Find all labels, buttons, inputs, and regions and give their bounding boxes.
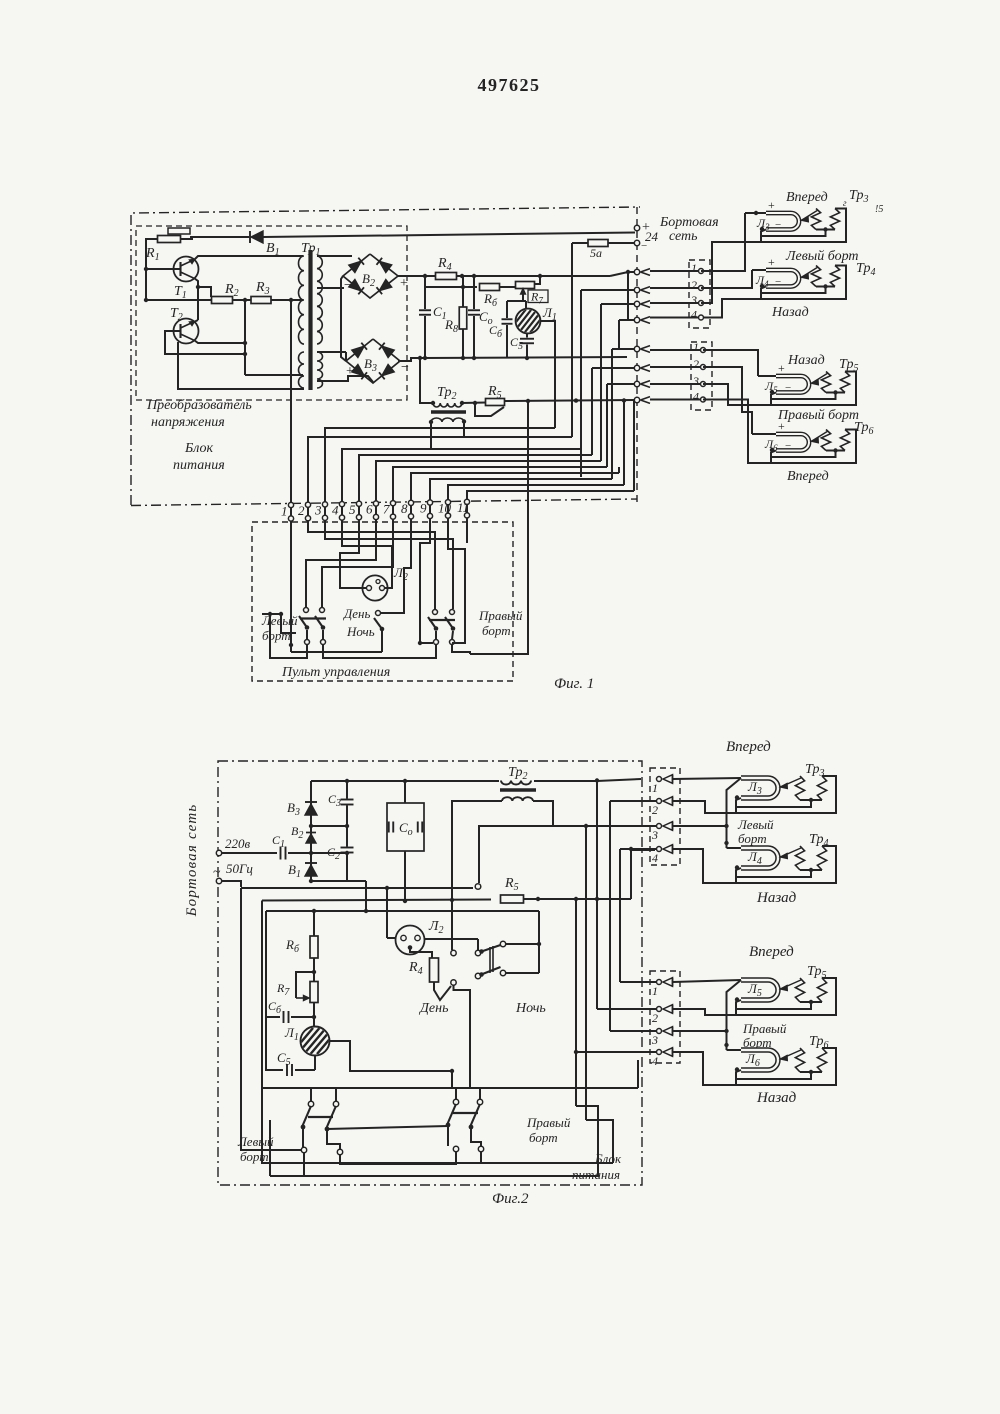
svg-text:Бортовая: Бортовая xyxy=(659,215,719,230)
svg-text:497625: 497625 xyxy=(478,75,541,95)
svg-text:С5: С5 xyxy=(510,335,523,352)
svg-text:3: 3 xyxy=(314,503,322,518)
capacitor C5 xyxy=(526,333,528,338)
svg-text:3: 3 xyxy=(651,1033,658,1047)
resistor R5 fig2 xyxy=(262,900,491,901)
wire pin2 to L3 return xyxy=(673,801,735,813)
svg-text:напряжения: напряжения xyxy=(151,415,225,430)
wire R1 right to top line xyxy=(181,237,193,239)
svg-text:Rб: Rб xyxy=(483,291,498,309)
terminal rows 1..11 fig1 xyxy=(288,502,293,507)
svg-text:Тр3: Тр3 xyxy=(805,762,824,779)
wire R1 left down to base line xyxy=(146,239,158,300)
switch left-board fig2 xyxy=(308,1101,313,1106)
wire Tp2 secondary left drop xyxy=(452,801,502,950)
transformer Tp1 right winding upper xyxy=(317,256,322,344)
svg-text:1: 1 xyxy=(652,781,658,795)
wire T1 base xyxy=(146,268,181,270)
svg-text:борт: борт xyxy=(262,628,291,643)
svg-text:Л1: Л1 xyxy=(284,1025,299,1043)
resistor R5 (fig1) xyxy=(462,402,486,405)
wire pin2-2 to L5 return xyxy=(673,1009,735,1015)
svg-text:Тр3: Тр3 xyxy=(849,188,868,205)
wire pin A4 return xyxy=(703,299,760,318)
resistor R6 fig2 xyxy=(312,909,316,913)
svg-text:50Гц: 50Гц xyxy=(226,861,253,876)
feeder L6 fig2 xyxy=(673,1030,727,1032)
capacitor C6 (vertical) xyxy=(506,301,508,318)
bridge rectifier B2 xyxy=(343,254,398,298)
wire pin4 to L4 return xyxy=(673,849,735,883)
svg-text:Левый: Левый xyxy=(737,817,774,832)
lamp L5 (Л5) fig1 with heater Tp5 xyxy=(776,376,809,393)
resistor R4 fig2 xyxy=(430,958,439,982)
svg-text:Левый: Левый xyxy=(237,1134,274,1149)
svg-text:В2: В2 xyxy=(362,271,375,289)
lamp L4 (Л4) fig1 with heater Tp4 xyxy=(766,270,799,287)
R7 wiper arrow xyxy=(522,292,524,301)
lamp L4 (Л4) fig2 with heater Tp4 xyxy=(741,848,778,868)
wire pin A2 to lamp L4 xyxy=(701,270,752,288)
svg-text:R1: R1 xyxy=(145,246,160,263)
wire base line y=300 xyxy=(146,299,303,301)
svg-text:+: + xyxy=(778,361,785,375)
resistor R6 xyxy=(480,284,500,291)
diode B1 fig2 xyxy=(305,865,317,876)
svg-text:Блок: Блок xyxy=(184,441,214,456)
lamp L5 (Л5) fig2 with heater Tp5 xyxy=(741,980,778,1000)
svg-text:R5: R5 xyxy=(504,876,519,893)
switch right-board (fig1) xyxy=(433,610,438,615)
svg-text:2: 2 xyxy=(652,803,658,817)
capacitor C0 fig2 (box) xyxy=(387,803,424,851)
wiper line xyxy=(507,300,526,302)
potentiometer R7 xyxy=(500,286,517,288)
svg-text:Правый: Правый xyxy=(478,608,523,623)
svg-text:В3: В3 xyxy=(287,800,300,818)
capacitor C0 xyxy=(472,356,476,360)
control panel dashed box (Пульт управления) xyxy=(252,522,513,681)
transformer Tp1 left winding lower xyxy=(299,352,305,388)
svg-text:R4: R4 xyxy=(408,960,423,977)
lamp L2 (Л2) fig2 xyxy=(396,926,425,955)
svg-text:Со: Со xyxy=(399,820,413,838)
capacitor C2 fig2 xyxy=(341,847,354,849)
svg-text:R7: R7 xyxy=(530,290,543,306)
wire top line to B1 and +24 xyxy=(190,236,249,238)
svg-text:4: 4 xyxy=(652,851,658,865)
svg-text:3: 3 xyxy=(692,374,699,388)
svg-text:Вперед: Вперед xyxy=(787,469,829,484)
svg-text:Правый: Правый xyxy=(526,1115,571,1130)
svg-text:Т2: Т2 xyxy=(170,306,183,323)
lamp L3 (Л3) fig1 with heater Tp3 xyxy=(766,213,799,230)
diode B1 xyxy=(251,231,263,243)
svg-text:С5: С5 xyxy=(277,1050,291,1068)
wire День circle up xyxy=(453,950,455,952)
svg-text:5: 5 xyxy=(349,502,356,517)
wire T2 emitter xyxy=(194,340,245,343)
switch right-board fig2 xyxy=(453,1099,458,1104)
svg-text:Л6: Л6 xyxy=(764,437,778,453)
svg-text:Назад: Назад xyxy=(771,305,809,320)
wire return line y=887 xyxy=(241,887,473,889)
svg-text:Правый: Правый xyxy=(742,1021,787,1036)
wire T2 collector from T1 xyxy=(194,320,198,322)
svg-text:−: − xyxy=(344,278,352,293)
svg-text:R7: R7 xyxy=(276,981,290,998)
svg-text:Назад: Назад xyxy=(756,890,797,906)
svg-text:2: 2 xyxy=(693,357,699,371)
svg-text:1: 1 xyxy=(652,984,658,998)
input terminals fig2 xyxy=(216,850,221,855)
wire T1 emitter down to T2 xyxy=(194,278,198,320)
svg-text:8: 8 xyxy=(401,501,408,516)
staircase wires to panel terminals xyxy=(308,437,572,503)
svg-text:Фиг. 1: Фиг. 1 xyxy=(554,676,594,692)
wire bottom rail y=358 xyxy=(422,357,627,358)
capacitor C6 fig2 xyxy=(266,1016,280,1018)
connector block 1 fig2 xyxy=(650,768,680,865)
svg-text:−: − xyxy=(775,276,781,288)
svg-text:борт: борт xyxy=(240,1149,269,1164)
svg-text:4: 4 xyxy=(332,502,339,517)
wire link between switch groups fig2 xyxy=(327,1126,448,1129)
lamp L6 (Л6) fig1 with heater Tp6 xyxy=(776,434,809,451)
svg-text:2: 2 xyxy=(298,503,305,518)
switch День (fig2) xyxy=(434,982,451,1000)
svg-text:10: 10 xyxy=(438,500,452,515)
wire 50Hz line xyxy=(222,881,242,887)
connector block 2 fig2 xyxy=(650,971,680,1063)
wire long vertical to terminal 1 xyxy=(290,300,292,505)
svg-text:Правый борт: Правый борт xyxy=(777,408,859,423)
wire x528 drop to control panel xyxy=(470,401,528,654)
wires edge to connector A xyxy=(650,270,699,272)
wire top rail fig2 xyxy=(311,780,499,782)
Fig1 inner dashed box (Преобразователь напряжения) xyxy=(136,226,407,400)
svg-text:С1: С1 xyxy=(272,833,285,850)
switch left-board (fig1) xyxy=(304,608,309,613)
svg-text:−: − xyxy=(641,240,647,252)
svg-text:Пульт управления: Пульт управления xyxy=(281,665,390,680)
diode B3 fig2 xyxy=(305,804,317,815)
svg-text:−: − xyxy=(785,382,791,394)
svg-text:Тр2: Тр2 xyxy=(437,385,456,402)
wire L2 bottom to R4 xyxy=(410,948,432,959)
wire pin A3 return xyxy=(701,242,760,303)
potentiometer R7 fig2 xyxy=(310,982,318,1003)
wire Tp1 right winding to bridge B2 xyxy=(317,255,352,257)
R7 label box xyxy=(528,290,548,303)
wire R5 to right xyxy=(505,400,635,401)
wire pin B1 to lamp L5 xyxy=(703,350,758,376)
wire 220V line with C1 xyxy=(222,852,278,854)
svg-text:R5: R5 xyxy=(487,384,502,401)
svg-text:Вперед: Вперед xyxy=(786,190,828,205)
svg-text:Фиг.2: Фиг.2 xyxy=(492,1191,529,1207)
wire feeder lamp L3 xyxy=(745,212,766,214)
wire pin B2 to lamp L6 xyxy=(703,367,752,434)
transistor T2 xyxy=(174,319,199,344)
svg-text:Л2: Л2 xyxy=(428,919,443,936)
svg-text:+: + xyxy=(778,419,785,433)
wire T2 bottom return xyxy=(178,342,304,389)
wire Tp1 lower right winding to bridge B3 xyxy=(317,351,346,353)
svg-text:7: 7 xyxy=(383,501,390,516)
wire lamp L1 right lead xyxy=(540,321,555,428)
svg-text:сеть: сеть xyxy=(669,229,698,244)
svg-text:1: 1 xyxy=(281,503,288,518)
svg-text:5а: 5а xyxy=(590,246,602,260)
resistor R2 xyxy=(212,297,233,304)
svg-text:2: 2 xyxy=(691,278,697,292)
left drop x=266 xyxy=(265,911,267,1017)
svg-text:Назад: Назад xyxy=(756,1090,797,1106)
connector block B (fig1) xyxy=(691,342,712,410)
svg-text:Левый борт: Левый борт xyxy=(785,249,859,264)
wires from bundle to edge terminals xyxy=(581,289,634,291)
svg-text:220в: 220в xyxy=(225,836,251,851)
wire pin B4 return xyxy=(703,400,770,464)
svg-text:Л3: Л3 xyxy=(747,779,762,797)
svg-text:борт: борт xyxy=(738,831,767,846)
svg-text:питания: питания xyxy=(572,1167,620,1182)
wire bridge B3 right to bottom rail xyxy=(398,358,422,361)
svg-text:Преобразователь: Преобразователь xyxy=(146,398,252,413)
wire T2 base xyxy=(165,331,245,354)
svg-text:R8: R8 xyxy=(444,317,458,335)
lamp L2 (Л2) fig1 xyxy=(362,575,387,600)
wire lower link y375 xyxy=(245,374,303,376)
resistor R1 xyxy=(168,228,190,234)
bridge rectifier B3 xyxy=(346,339,400,383)
fuse 5a xyxy=(609,242,635,244)
wire R7 to lamp L1 xyxy=(313,1003,315,1028)
feeder L3 fig2 xyxy=(673,778,741,779)
svg-text:R3: R3 xyxy=(255,280,270,297)
svg-text:!5: !5 xyxy=(875,204,883,215)
plug arrows (fig1) xyxy=(641,269,651,272)
svg-text:День: День xyxy=(342,606,370,621)
svg-text:питания: питания xyxy=(173,458,225,473)
svg-text:−: − xyxy=(775,219,781,231)
svg-text:борт: борт xyxy=(482,623,511,638)
svg-text:4: 4 xyxy=(693,390,699,404)
wire День bottom drop xyxy=(454,985,471,1088)
svg-text:С3: С3 xyxy=(328,792,341,809)
wire C3/C2 vertical xyxy=(346,781,348,799)
resistor R3 xyxy=(251,297,271,304)
wire T1 collector to Tp1 top xyxy=(194,256,303,260)
wire pin A1 to lamp L3 xyxy=(701,213,745,271)
feeder L5 fig2 xyxy=(673,980,741,982)
Fig1 power-supply outer dash-dot box (Блок питания) xyxy=(131,207,640,505)
wire R2R3 node vertical xyxy=(244,300,246,375)
lamp L6 (Л6) fig2 with heater Tp6 xyxy=(741,1050,778,1070)
capacitor C1 xyxy=(423,356,427,360)
svg-text:3: 3 xyxy=(690,293,697,307)
edge terminals on dashed line (fig1) xyxy=(634,269,639,274)
R5 under-loop xyxy=(473,401,477,405)
switch Ночь assembly (fig2) xyxy=(475,950,480,955)
svg-text:Ночь: Ночь xyxy=(346,624,375,639)
svg-text:В1: В1 xyxy=(288,862,301,880)
diode stack vertical wire xyxy=(310,781,312,881)
svg-text:9: 9 xyxy=(420,501,427,516)
wire x=366 drop xyxy=(347,880,366,882)
svg-text:Вперед: Вперед xyxy=(726,739,771,755)
wire Tp2 primary left xyxy=(420,358,433,403)
svg-text:Тр4: Тр4 xyxy=(856,261,875,278)
svg-text:В2: В2 xyxy=(291,824,303,841)
svg-text:−: − xyxy=(785,440,791,452)
wire L2 left lead xyxy=(387,937,396,939)
wire pin2-4 to L6 return xyxy=(673,1052,735,1085)
svg-text:День: День xyxy=(418,1001,448,1016)
svg-text:4: 4 xyxy=(691,308,697,322)
svg-text:11: 11 xyxy=(457,500,469,515)
node bundle verticals xyxy=(626,270,630,274)
wires into connector2 fig2 xyxy=(620,981,656,983)
wires Ночь to right xyxy=(506,943,540,945)
svg-text:Вперед: Вперед xyxy=(749,944,794,960)
svg-text:2: 2 xyxy=(652,1011,658,1025)
svg-text:R4: R4 xyxy=(437,256,452,273)
svg-text:+: + xyxy=(768,198,775,212)
connector block A (fig1) xyxy=(689,260,710,328)
svg-text:1: 1 xyxy=(693,340,699,354)
Fig2 outer dash-dot box (Блок питания fig2) xyxy=(218,761,642,1185)
transformer Tp1 left winding upper xyxy=(298,256,304,344)
svg-text:R2: R2 xyxy=(224,282,239,299)
capacitor C5 fig2 xyxy=(266,1017,283,1070)
resistor R4 xyxy=(436,273,457,280)
wires control panel bottom xyxy=(291,651,382,653)
wires switches fig2 xyxy=(310,1088,312,1101)
svg-text:4: 4 xyxy=(652,1054,658,1068)
wire feeder lamp L6 xyxy=(752,433,776,435)
wire lamp L1 right lead fig2 xyxy=(330,1041,453,1071)
transistor T1 xyxy=(174,257,199,282)
wire L2 right lead xyxy=(425,938,479,940)
wires into connector1 fig2 xyxy=(610,800,656,802)
svg-text:+: + xyxy=(346,364,354,379)
feeder L4 fig2 xyxy=(673,825,727,827)
svg-text:Rб: Rб xyxy=(285,937,300,955)
wire R5 right to pin4 xyxy=(631,850,655,899)
svg-text:6: 6 xyxy=(366,502,373,517)
wires bottom area fig2 long horizontals xyxy=(262,1087,638,1089)
svg-text:Л4: Л4 xyxy=(755,273,769,289)
wires from upper into switch area xyxy=(241,888,301,1150)
svg-text:Л4: Л4 xyxy=(747,849,762,867)
wire Tp2 secondary right loop xyxy=(479,801,553,883)
svg-text:3: 3 xyxy=(651,828,658,842)
onboard net terminals +24 xyxy=(634,225,639,230)
svg-text:Сб: Сб xyxy=(268,999,282,1016)
wire DC rail y=276 xyxy=(422,275,610,277)
svg-text:+: + xyxy=(400,276,408,291)
lamp L1 (Л1) hatched xyxy=(525,301,527,309)
wires control panel drops xyxy=(290,521,292,652)
capacitor C3 fig2 xyxy=(341,799,354,801)
svg-text:Сб: Сб xyxy=(489,323,503,340)
transformer Tp1 right winding lower xyxy=(317,352,323,388)
svg-text:Л5: Л5 xyxy=(747,981,762,999)
wire emitter branch to R2 xyxy=(198,287,211,297)
verticals fig2 middle xyxy=(575,899,577,1106)
switch day-night (fig1) xyxy=(376,611,381,616)
svg-text:Бортовая сеть: Бортовая сеть xyxy=(184,804,200,918)
svg-text:Л5: Л5 xyxy=(764,379,778,395)
svg-text:Блок: Блок xyxy=(594,1151,622,1166)
svg-text:В3: В3 xyxy=(364,356,377,374)
svg-text:Л3: Л3 xyxy=(756,216,770,232)
svg-text:Назад: Назад xyxy=(787,353,825,368)
capacitor C1 fig2 xyxy=(280,847,282,860)
lamp L3 (Л3) fig2 with heater Tp3 xyxy=(741,778,778,798)
wire feeder lamp L4 xyxy=(752,269,766,271)
svg-text:борт: борт xyxy=(529,1130,558,1145)
svg-text:1: 1 xyxy=(691,261,697,275)
wire bridge B2 right to R4 rail xyxy=(398,275,422,277)
svg-text:г: г xyxy=(843,198,847,208)
transformer Tp1 core xyxy=(308,250,312,390)
wire feeder lamp L5 xyxy=(758,375,776,377)
wire fuse down xyxy=(571,243,573,437)
wire from lamp L1 bottom to switches xyxy=(451,1071,453,1088)
wire feed line y=287 xyxy=(424,276,426,287)
wires edge to connector B xyxy=(650,349,701,351)
svg-text:Т1: Т1 xyxy=(174,284,187,301)
wire pin B3 return xyxy=(703,384,770,405)
resistor R8 xyxy=(460,274,464,278)
svg-text:+: + xyxy=(768,255,775,269)
svg-text:Тр2: Тр2 xyxy=(508,765,527,782)
wire R6-R7 xyxy=(313,958,315,982)
svg-text:Ночь: Ночь xyxy=(515,1001,546,1016)
svg-text:С2: С2 xyxy=(327,845,340,862)
diode B2 fig2 xyxy=(306,834,316,843)
svg-text:Л6: Л6 xyxy=(745,1051,760,1069)
svg-text:−: − xyxy=(401,360,409,375)
wire bridge B2 left to B3 left xyxy=(341,276,346,361)
